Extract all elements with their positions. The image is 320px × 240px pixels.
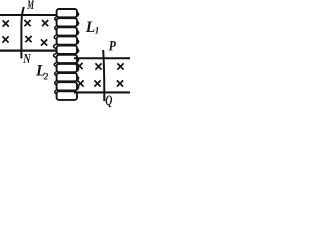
field symbol x right r2c3 [117, 80, 123, 86]
field symbol x left r1c3 [42, 20, 48, 26]
field symbol x left r2c1 [2, 36, 8, 42]
coil right connecting arcs [77, 12, 79, 90]
svg-text:1: 1 [95, 26, 100, 36]
wire: bottom-left rail [0, 49, 56, 51]
field symbol x right r1c1 [76, 63, 82, 69]
wire: bottom-right rail [74, 91, 130, 93]
field symbol x right r1c2 [95, 63, 101, 69]
field symbol x right r2c2 [94, 80, 100, 86]
svg-text:L: L [85, 19, 95, 36]
rod PQ [103, 50, 104, 101]
wire: top-right rail [74, 57, 130, 59]
wire: top-left rail [0, 14, 57, 16]
field symbol x left r1c2 [24, 20, 30, 26]
field symbol x right r1c3 [117, 63, 123, 69]
field symbol x right r2c1 [77, 80, 83, 86]
svg-text:M: M [26, 0, 34, 13]
svg-text:2: 2 [43, 72, 49, 82]
svg-text:P: P [109, 37, 117, 54]
field symbol x left r2c2 [25, 36, 31, 42]
coil left connecting arcs [54, 16, 58, 94]
svg-text:Q: Q [105, 92, 112, 108]
inductor coil turns [57, 9, 77, 100]
rod MN [21, 7, 23, 59]
svg-text:N: N [22, 51, 30, 67]
field symbol x left r1c1 [3, 20, 9, 26]
field symbol x left r2c3 [41, 39, 47, 45]
